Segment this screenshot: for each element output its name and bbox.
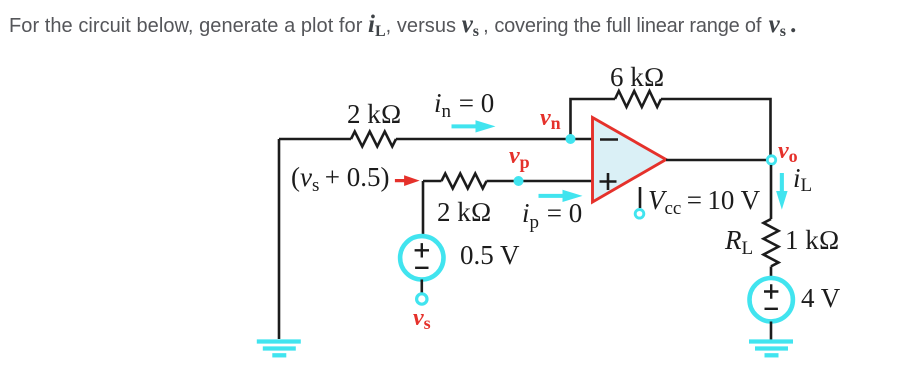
- 0.5 V source plus sign: [415, 243, 429, 257]
- terminal label v_s (red): [413, 305, 431, 333]
- 4 V source minus sign: [765, 308, 778, 310]
- source 0.5 V circle (cyan): [400, 236, 443, 279]
- node label v_o (red): [778, 138, 798, 166]
- resistor 6 kOhm (feedback): [615, 91, 661, 107]
- node v_n junction dot (cyan): [566, 134, 576, 144]
- svg-text:vo: vo: [778, 138, 798, 166]
- supply label Vcc = 10 V: [648, 185, 761, 219]
- 4 V source plus sign: [764, 284, 778, 298]
- svg-text:Vcc = 10 V: Vcc = 10 V: [648, 185, 761, 219]
- wire: Vcc stub below op-amp: [639, 187, 642, 208]
- current arrow i_L (cyan, downward): [776, 173, 788, 210]
- wire: noninverting-input net horizontal: [423, 180, 592, 183]
- wire: v_o node down to R_L: [770, 165, 773, 276]
- ground (left, cyan): [257, 342, 301, 356]
- svg-text:vs: vs: [413, 305, 431, 333]
- svg-text:(vs + 0.5): (vs + 0.5): [291, 162, 390, 196]
- svg-text:ip = 0: ip = 0: [522, 198, 582, 233]
- value label 4 V: [801, 283, 841, 313]
- instruction text: [9, 11, 797, 39]
- svg-text:in = 0: in = 0: [434, 88, 494, 122]
- current label i_n = 0: [434, 88, 494, 122]
- svg-text:2 kΩ: 2 kΩ: [347, 99, 402, 129]
- resistor 2 kOhm (middle): [442, 174, 487, 189]
- red pointer arrow to plus-net: [395, 175, 420, 186]
- value label 2 kOhm (top left): [347, 99, 402, 129]
- op-amp U1 triangle: [593, 118, 667, 203]
- svg-text:4 V: 4 V: [801, 283, 841, 313]
- node label v_p (red): [509, 143, 530, 172]
- current arrow i_p (cyan): [539, 190, 583, 202]
- node v_p junction dot (cyan): [514, 176, 524, 186]
- value label 0.5 V: [460, 240, 520, 270]
- wire: 4 V source to ground: [770, 322, 773, 340]
- wire: feedback branch up and across top: [571, 99, 771, 160]
- svg-text:RL: RL: [724, 225, 753, 259]
- svg-text:1 kΩ: 1 kΩ: [785, 225, 840, 255]
- svg-text:2 kΩ: 2 kΩ: [437, 197, 492, 227]
- op-amp minus input marking: [600, 138, 618, 141]
- value label 2 kOhm (middle): [437, 197, 492, 227]
- ground (right, cyan): [749, 342, 793, 356]
- svg-text:iL: iL: [793, 163, 812, 196]
- node label v_n (red): [540, 105, 561, 133]
- wire: left vertical from top-left corner down to ground: [278, 139, 281, 339]
- svg-text:vp: vp: [509, 143, 530, 172]
- svg-text:6 kΩ: 6 kΩ: [610, 62, 665, 92]
- wire: inverting-input net horizontal (2k resistor wire): [279, 138, 592, 141]
- current arrow i_n (cyan): [452, 120, 496, 132]
- current label i_L: [793, 163, 812, 196]
- 0.5 V source minus sign: [415, 267, 428, 269]
- op-amp plus input marking: [600, 173, 617, 190]
- terminal v_s (open cyan circle): [417, 294, 427, 304]
- wire: 0.5 V source to v_s terminal: [420, 280, 423, 294]
- current label i_p = 0: [522, 198, 582, 233]
- node v_o (open cyan circle): [767, 156, 775, 164]
- svg-text:vn: vn: [540, 105, 561, 133]
- voltage label (v_s + 0.5) with red arrow: [291, 162, 390, 196]
- value label 1 kOhm: [785, 225, 840, 255]
- wire: op-amp output to v_o node: [666, 159, 771, 162]
- wire: junction down to 0.5 V source: [422, 181, 425, 236]
- Vcc terminal (open cyan circle): [635, 210, 644, 219]
- reference label R_L: [724, 225, 753, 259]
- resistor R_L 1 kOhm (vertical): [764, 219, 779, 266]
- value label 6 kOhm: [610, 62, 665, 92]
- resistor 2 kOhm (top left): [351, 132, 396, 147]
- source 4 V circle (cyan): [750, 278, 793, 321]
- svg-text:0.5 V: 0.5 V: [460, 240, 520, 270]
